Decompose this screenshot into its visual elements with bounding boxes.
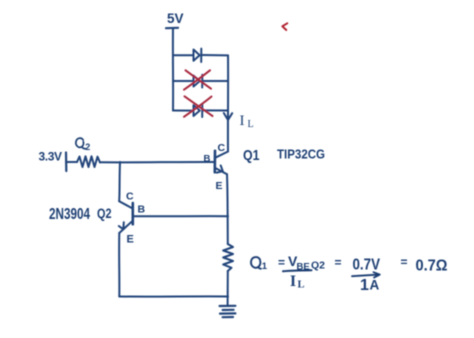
- wire: R1 to ground: [227, 271, 229, 306]
- wire: 5V rail down to diode stack: [172, 28, 174, 111]
- svg-text:I: I: [290, 273, 296, 290]
- svg-text:C: C: [218, 142, 226, 154]
- wire: Q2 emitter down: [118, 233, 120, 297]
- wire: 3.3V to resistor R2: [66, 161, 77, 163]
- formula: IL denominator: [290, 273, 305, 291]
- wire: diode branch 3: [173, 109, 228, 111]
- red X over diode D2: [184, 70, 211, 89]
- svg-text:0.7V: 0.7V: [353, 257, 381, 274]
- resistor R2: [77, 156, 100, 167]
- svg-text:1: 1: [262, 261, 268, 272]
- red check mark top right: [282, 23, 287, 30]
- wire: right rail from diodes to Q1 collector: [227, 55, 229, 151]
- svg-text:1: 1: [360, 277, 369, 294]
- svg-text:3.3: 3.3: [39, 150, 55, 164]
- svg-text:TIP32CG: TIP32CG: [277, 148, 325, 162]
- transistor Q2 collector lead: [119, 201, 132, 208]
- wire: diode branch 1: [173, 54, 228, 56]
- diode D3: [194, 104, 203, 117]
- formula: V BE Q2 numerator: [288, 253, 325, 273]
- svg-text:=: =: [335, 256, 342, 270]
- formula: 1 A denominator: [360, 277, 380, 294]
- ground: [220, 306, 236, 317]
- wire: Q2 base to Q1 emitter rail: [134, 215, 228, 217]
- diode D1: [194, 49, 202, 62]
- svg-text:L: L: [298, 280, 305, 291]
- wire: diode branch 2: [173, 80, 228, 82]
- svg-text:=: =: [401, 255, 408, 269]
- wire: Q2 collector riser from base node: [118, 162, 121, 201]
- svg-text:2N3904: 2N3904: [49, 206, 90, 223]
- svg-text:2: 2: [85, 142, 90, 152]
- red X over diode D3: [184, 96, 213, 117]
- svg-text:0.7Ω: 0.7Ω: [416, 258, 448, 275]
- Q2 emitter arrow: [119, 222, 124, 229]
- wire: Q1 emitter rail down to R1: [226, 174, 229, 244]
- svg-text:5V: 5V: [167, 11, 184, 26]
- current arrow IL on rail: [224, 113, 232, 120]
- formula: fraction bar: [283, 270, 312, 271]
- wire: base line R2 to Q1: [100, 161, 214, 163]
- resistor R1: [223, 244, 233, 271]
- 3.3V terminal tick: [65, 153, 68, 172]
- svg-text:V: V: [54, 150, 62, 164]
- diode D2: [194, 75, 203, 88]
- transistor Q2 base bar: [132, 203, 135, 224]
- svg-text:B: B: [138, 204, 146, 216]
- formula: arrow fraction bar: [352, 272, 380, 277]
- label IL: [240, 113, 254, 130]
- wire: bottom return to ground node: [119, 295, 228, 297]
- svg-text:E: E: [216, 180, 223, 192]
- net 3.3V label: [39, 150, 63, 164]
- svg-text:C: C: [126, 191, 134, 203]
- svg-text:I: I: [240, 113, 245, 129]
- Q1 emitter arrow: [217, 166, 223, 173]
- svg-text:E: E: [127, 234, 134, 246]
- Q1 emitter lead: [215, 168, 227, 174]
- Q1 collector lead: [215, 152, 228, 158]
- svg-text:Q2: Q2: [97, 205, 112, 221]
- 5V supply bar: [166, 27, 178, 30]
- svg-text:L: L: [248, 119, 254, 130]
- svg-text:Q2: Q2: [311, 260, 325, 272]
- transistor Q1 base bar: [214, 151, 217, 172]
- svg-text:B: B: [204, 154, 211, 165]
- svg-text:=: =: [278, 256, 285, 270]
- label R2 (script R with subscript 2): [76, 138, 90, 152]
- svg-text:Q1: Q1: [243, 147, 260, 164]
- formula: R1 script: [251, 257, 268, 272]
- svg-text:A: A: [370, 278, 380, 293]
- Q2 emitter lead: [119, 221, 132, 233]
